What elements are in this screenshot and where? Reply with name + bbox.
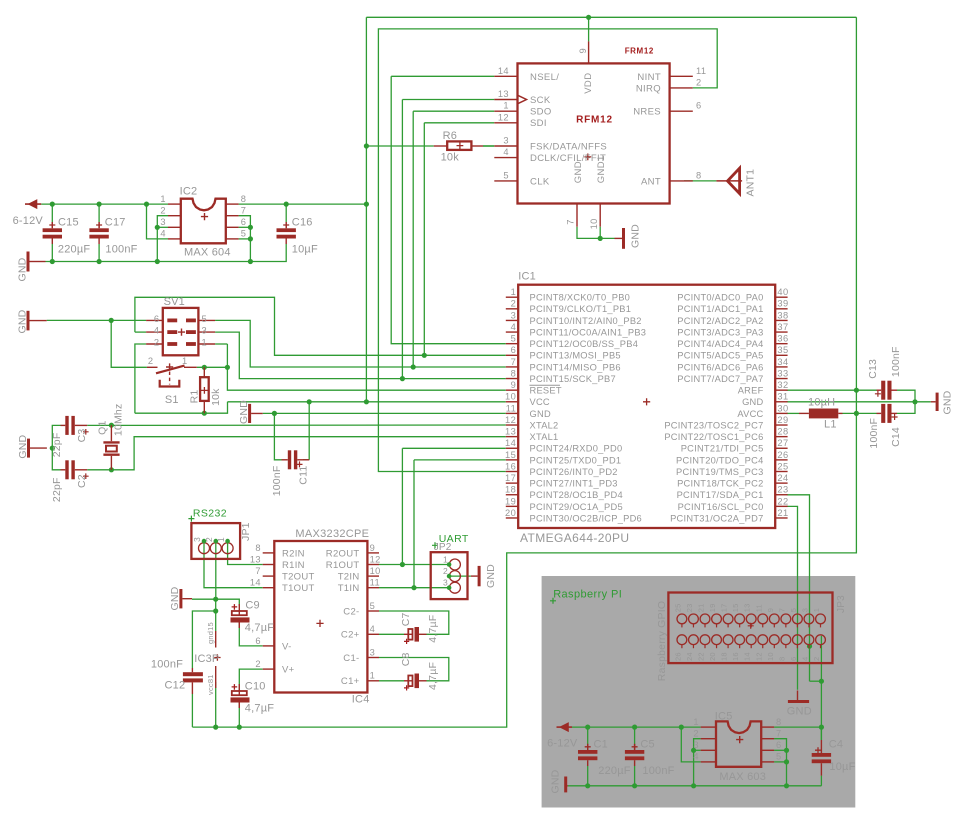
svg-text:2: 2 [443,566,448,576]
junction 5V dots [819,679,824,684]
wire RFM12 GND pins to GND [577,227,600,239]
junction AGND dot [912,399,917,404]
svg-text:VCC: VCC [530,397,550,407]
svg-text:4,7µF: 4,7µF [245,622,274,634]
junction RESET dots [202,365,207,370]
svg-text:NIRQ: NIRQ [636,83,661,94]
wire SCL net [787,506,798,689]
svg-text:17: 17 [720,604,729,613]
svg-text:6-12V: 6-12V [547,738,578,750]
svg-text:ATMEGA644-20PU: ATMEGA644-20PU [520,531,629,545]
svg-text:16: 16 [731,652,740,661]
wire IC3P bottom lead [215,682,217,727]
svg-text:13: 13 [250,554,261,564]
ground symbol GND (AGND right) [936,393,939,411]
svg-text:1: 1 [370,671,376,681]
svg-text:15: 15 [731,604,740,613]
svg-text:4,7µF: 4,7µF [427,615,439,643]
svg-text:MAX 604: MAX 604 [184,247,231,259]
svg-text:29: 29 [777,415,788,425]
wire RESET net S1-R1-SV1-IC1 [197,366,228,368]
SV1 pin stubs [146,319,163,321]
svg-text:FSK/DATA/NFFS: FSK/DATA/NFFS [530,142,607,153]
svg-text:6: 6 [255,636,261,646]
wire AREF net [787,389,877,391]
svg-text:1: 1 [503,101,509,111]
junction GND JP1 dots [213,597,218,602]
svg-text:8: 8 [241,194,247,204]
JP3 pin ticks [681,624,683,627]
svg-text:30: 30 [777,403,788,413]
svg-text:4: 4 [800,657,809,661]
svg-text:SCK: SCK [530,95,551,106]
svg-text:23: 23 [777,485,788,495]
svg-text:6-12V: 6-12V [13,215,44,227]
svg-text:PCINT18/TCK_PC2: PCINT18/TCK_PC2 [677,479,763,489]
svg-text:100nF: 100nF [868,418,880,449]
svg-text:2: 2 [255,659,261,669]
svg-text:6: 6 [789,657,798,661]
wire GND rail raspberry [568,785,821,787]
svg-text:12: 12 [754,652,763,661]
svg-text:10k: 10k [210,388,222,406]
RFM12 origin cross [584,154,591,161]
svg-text:PCINT20/TDO_PC4: PCINT20/TDO_PC4 [676,455,763,465]
svg-text:100nF: 100nF [642,765,674,777]
svg-text:PCINT26/INT0_PD2: PCINT26/INT0_PD2 [530,467,618,477]
capacitor C1 [578,750,597,754]
junction GND raspberry dots [585,783,590,788]
wire MOSI net SV1.4 to IC1 PB5 and RFM12 SDI [135,331,146,333]
svg-text:9: 9 [766,608,775,612]
svg-text:12: 12 [370,554,381,564]
svg-text:V+: V+ [282,665,295,676]
svg-text:3: 3 [202,326,208,336]
wire C7 net [379,633,404,635]
wire GND to SV1 pin6 and S1 [47,319,146,321]
JP1 circles [199,543,210,554]
svg-text:27: 27 [777,438,788,448]
junction SCK dot [400,376,405,381]
svg-text:5: 5 [789,608,798,612]
capacitor C16 [277,228,296,232]
svg-text:26: 26 [673,652,682,661]
svg-text:14: 14 [743,652,752,661]
Raspberry PI origin cross [550,598,556,604]
svg-text:RESET: RESET [530,386,562,396]
capacitor C4 [812,753,831,757]
svg-text:GND: GND [17,257,29,281]
svg-text:8: 8 [255,543,261,553]
ground symbol GND (crystal area) [27,439,30,458]
svg-text:Raspberry GPIO: Raspberry GPIO [656,601,668,681]
svg-text:22pF: 22pF [51,433,63,458]
capacitor C8 [404,680,413,682]
svg-text:R2OUT: R2OUT [326,548,360,559]
svg-text:13: 13 [498,89,509,99]
svg-text:PCINT16/SCL_PC0: PCINT16/SCL_PC0 [678,502,764,512]
svg-text:10k: 10k [441,152,460,164]
svg-text:C7: C7 [400,612,412,626]
svg-text:1: 1 [202,338,208,348]
svg-text:12: 12 [498,112,509,122]
svg-text:40: 40 [777,287,788,297]
wire MISO net SV1.5 to IC1 PB6 and RFM12 SDO [215,320,506,367]
svg-text:PCINT8/XCK0/T0_PB0: PCINT8/XCK0/T0_PB0 [530,293,631,303]
wire XTAL1 net [52,448,60,470]
wire ANT net [684,180,716,182]
svg-text:NINT: NINT [637,72,661,83]
svg-text:FRM12: FRM12 [625,46,654,55]
svg-text:2: 2 [148,356,154,366]
svg-text:17: 17 [505,473,516,483]
IC1 RESET overline [530,384,561,386]
wire C12 bottom lead [191,694,193,727]
connector JP1 outline [191,523,240,559]
svg-text:11: 11 [370,578,380,588]
IC2 pin stubs [168,203,181,205]
capacitor C17 [89,228,108,232]
svg-text:39: 39 [777,299,788,309]
wire C10 leads [239,669,262,691]
svg-text:10µH: 10µH [808,396,835,408]
svg-text:100nF: 100nF [890,346,902,377]
svg-text:31: 31 [777,392,788,402]
svg-text:C2-: C2- [343,606,359,617]
svg-text:C17: C17 [105,217,126,229]
svg-text:R1: R1 [189,390,201,404]
junction IC5 right loop dots [784,748,789,753]
svg-text:33: 33 [777,368,788,378]
svg-text:19: 19 [505,496,516,506]
svg-text:PCINT11/OC0A/AIN1_PB3: PCINT11/OC0A/AIN1_PB3 [530,327,647,337]
capacitor C7 [404,633,413,635]
svg-text:13: 13 [743,604,752,613]
svg-text:37: 37 [777,322,788,332]
svg-text:25: 25 [777,461,788,471]
svg-text:1: 1 [216,537,226,542]
svg-text:220µF: 220µF [598,765,630,777]
svg-text:220µF: 220µF [58,244,90,256]
svg-text:9: 9 [370,543,376,553]
ground symbol GND (IC2 area) [27,252,30,272]
svg-text:C1+: C1+ [341,676,360,687]
svg-text:22: 22 [697,652,706,661]
svg-text:SDI: SDI [530,118,547,129]
svg-text:RFM12: RFM12 [576,115,613,126]
svg-text:15: 15 [505,450,516,460]
svg-text:12: 12 [505,415,516,425]
capacitor C14 [877,412,882,414]
wire C4 leads [820,727,822,740]
svg-text:PCINT25/TXD0_PD1: PCINT25/TXD0_PD1 [530,455,622,465]
svg-text:7: 7 [776,728,782,738]
svg-text:7: 7 [241,205,247,215]
svg-text:PCINT12/OC0B/SS_PB4: PCINT12/OC0B/SS_PB4 [530,339,639,349]
SV1 pads [167,319,177,323]
svg-text:6: 6 [154,314,160,324]
JP2 circles [449,559,460,570]
svg-text:IC1: IC1 [518,270,536,282]
svg-text:C5: C5 [640,739,654,751]
svg-text:PCINT22/TOSC1_PC6: PCINT22/TOSC1_PC6 [664,432,763,442]
ground symbol GND (IC1 pin11) [248,404,251,423]
IC2 origin cross [201,213,208,220]
svg-text:ANT1: ANT1 [745,169,757,197]
wire AVCC net with L1 [787,412,799,414]
svg-text:10: 10 [505,392,516,402]
svg-text:PCINT17/SDA_PC1: PCINT17/SDA_PC1 [677,490,764,500]
svg-text:14: 14 [498,66,509,76]
svg-text:1: 1 [511,287,517,297]
svg-text:PCINT19/TMS_PC3: PCINT19/TMS_PC3 [676,467,763,477]
IC5 origin cross [736,736,743,743]
svg-text:35: 35 [777,345,788,355]
svg-text:PCINT0/ADC0_PA0: PCINT0/ADC0_PA0 [677,293,763,303]
svg-text:C14: C14 [890,427,902,447]
ground symbol GND (JP2) [478,566,481,586]
svg-text:C12: C12 [165,680,186,692]
wire JP1 pin3 to T1OUT [204,541,263,588]
RFM12 pin stub top [588,41,590,63]
junction VDD net dots [586,15,591,20]
svg-text:vcc81: vcc81 [206,674,215,695]
svg-text:C2+: C2+ [341,630,360,641]
wire GND net JP1 area [192,599,239,606]
svg-text:5: 5 [202,314,208,324]
IC regulator IC5 outline [716,721,761,766]
svg-text:11: 11 [754,604,763,612]
junction 6-12V rail dots [50,202,55,207]
svg-text:10: 10 [766,652,775,661]
resistor R1 [200,377,209,401]
junction MISO dot [411,364,416,369]
svg-text:1: 1 [693,717,699,727]
svg-text:10: 10 [589,218,599,229]
wire C9 leads [239,623,262,646]
svg-text:4,7µF: 4,7µF [427,662,439,690]
antenna ANT1 [716,180,742,182]
svg-text:3: 3 [693,740,699,750]
svg-text:CLK: CLK [530,176,550,187]
svg-text:100nF: 100nF [271,466,283,497]
svg-text:IC2: IC2 [180,185,198,197]
svg-text:PCINT30/OC2B/ICP_PD6: PCINT30/OC2B/ICP_PD6 [530,513,642,523]
JP3 origin cross [748,623,754,629]
svg-text:8: 8 [777,657,786,661]
wire RXD net [402,447,505,449]
capacitor C2 [61,469,66,471]
svg-text:MAX 603: MAX 603 [719,771,766,783]
junction IC2 left loop dot [155,225,160,230]
capacitor C3 [61,424,66,426]
IC1 pin stubs [506,296,518,298]
svg-text:4: 4 [511,322,517,332]
wire C1 leads [587,727,589,744]
svg-text:1: 1 [443,555,448,565]
svg-text:7: 7 [777,608,786,612]
svg-text:C3: C3 [76,429,88,443]
svg-text:PCINT23/TOSC2_PC7: PCINT23/TOSC2_PC7 [664,420,763,430]
capacitor C9 [238,604,240,615]
svg-text:JP1: JP1 [240,522,252,541]
junction RFM12 GND dot [598,236,603,241]
svg-text:VDD: VDD [583,73,594,94]
svg-text:10µF: 10µF [829,761,855,773]
IC microcontroller IC1 outline [518,285,775,528]
svg-text:1: 1 [812,608,821,612]
svg-text:2: 2 [160,205,166,215]
svg-text:1: 1 [182,356,188,366]
svg-text:S1: S1 [165,394,179,406]
svg-text:GND: GND [17,309,29,333]
svg-text:34: 34 [777,357,788,367]
wire IC2 pins 2-3 ground loop [157,216,168,262]
svg-text:C9: C9 [245,599,259,611]
svg-text:6: 6 [776,740,782,750]
svg-text:SV1: SV1 [164,296,185,308]
svg-text:5: 5 [241,229,247,239]
svg-text:C10: C10 [245,681,266,693]
SV1 origin cross [178,329,185,336]
svg-text:18: 18 [720,652,729,661]
svg-text:IC4: IC4 [352,694,370,706]
svg-text:Raspberry PI: Raspberry PI [553,589,622,601]
svg-text:PCINT14/MISO_PB6: PCINT14/MISO_PB6 [530,362,621,372]
svg-text:NRES: NRES [633,107,661,118]
wire JP1 pin2 to GND [215,541,217,599]
wire IC3P top lead [215,599,217,631]
wire IC2 pins 7-6-5 ground loop [239,216,251,262]
wire C15 leads [51,204,53,222]
svg-text:PCINT13/MOSI_PB5: PCINT13/MOSI_PB5 [530,351,621,361]
svg-text:V-: V- [282,641,292,652]
svg-text:XTAL2: XTAL2 [530,420,559,430]
svg-text:MAX3232CPE: MAX3232CPE [295,528,369,540]
svg-text:AVCC: AVCC [737,409,763,419]
svg-text:GND: GND [169,586,181,610]
svg-text:21: 21 [697,604,706,613]
svg-text:PCINT7/ADC7_PA7: PCINT7/ADC7_PA7 [677,374,763,384]
svg-text:GND: GND [530,409,551,419]
capacitor C15 [43,228,62,232]
svg-text:Q1: Q1 [97,420,109,434]
svg-text:GND: GND [238,400,250,424]
svg-text:3: 3 [370,647,376,657]
Raspberry PI section background box [542,576,856,808]
wire 5V net JP3 to IC5 out [810,680,822,682]
svg-text:4: 4 [160,229,166,239]
capacitor C11 [282,459,288,461]
wire GND to IC1 pin11 and C11 [263,412,506,414]
svg-text:GND: GND [742,397,763,407]
UART origin cross [432,542,438,548]
svg-text:C13: C13 [867,359,879,379]
inductor L1 [799,412,809,414]
JP1 pads [202,539,207,544]
svg-text:R1IN: R1IN [282,560,305,571]
svg-text:38: 38 [777,310,788,320]
svg-text:20: 20 [708,652,717,661]
svg-text:100nF: 100nF [105,244,137,256]
svg-text:22: 22 [777,496,788,506]
svg-text:8: 8 [776,717,782,727]
ground symbol GND (SV1 area) [27,311,30,331]
svg-text:C16: C16 [292,217,313,229]
wire GND rail IC2 area [46,252,287,262]
svg-text:PCINT3/ADC3_PA3: PCINT3/ADC3_PA3 [677,327,763,337]
svg-text:C15: C15 [58,217,79,229]
connector SV1 outline [163,308,199,355]
svg-text:3: 3 [511,310,517,320]
svg-text:7: 7 [511,357,517,367]
svg-text:36: 36 [777,334,788,344]
capacitor C5 [625,750,644,754]
wire JP1 pin1 to R1IN [228,541,263,564]
svg-text:PCINT27/INT1_PD3: PCINT27/INT1_PD3 [530,479,618,489]
supply arrow 6-12V (IC5) [557,726,573,728]
svg-text:1: 1 [160,194,166,204]
svg-text:T1OUT: T1OUT [282,583,315,594]
svg-text:GND: GND [550,769,562,793]
junction XTAL1 dot [109,467,114,472]
RS232 origin cross [188,516,194,522]
svg-text:IC3P: IC3P [194,653,219,665]
svg-text:6: 6 [511,345,517,355]
IC RFM12 outline [518,63,670,203]
svg-text:7: 7 [566,219,576,225]
svg-text:C8: C8 [400,652,412,666]
wire TXD net [414,459,506,461]
svg-text:13: 13 [505,427,516,437]
wire AGND net pin31 [787,401,931,403]
JP3 bottom row circles [677,635,687,645]
svg-text:AREF: AREF [738,386,764,396]
svg-text:24: 24 [685,652,694,661]
junction IC2 right loop dots [248,225,253,230]
svg-text:SDO: SDO [530,107,552,118]
wire SDA net [787,495,810,681]
svg-text:DCLK/CFIL/FFIT: DCLK/CFIL/FFIT [530,153,606,164]
svg-text:T1IN: T1IN [338,583,360,594]
svg-text:PCINT28/OC1B_PD4: PCINT28/OC1B_PD4 [530,490,623,500]
wire C8 net [379,680,404,682]
IC1 origin cross [643,398,650,405]
IC driver IC4 outline [274,541,367,693]
RFM12 pin stubs right [670,75,693,77]
svg-text:GND: GND [573,161,584,183]
svg-text:23: 23 [685,604,694,613]
svg-text:9: 9 [578,48,588,54]
IC4 origin cross [316,620,323,627]
svg-text:24: 24 [777,473,788,483]
ground symbol GND (raspberry) [788,700,809,703]
svg-text:2: 2 [812,657,821,661]
junction XTAL2 dot [109,423,114,428]
RFM12 pin stubs bottom [576,204,578,227]
svg-text:11: 11 [506,403,516,413]
svg-text:3: 3 [800,608,809,612]
svg-text:GND: GND [17,434,29,458]
svg-text:21: 21 [777,508,788,518]
svg-text:16: 16 [505,461,516,471]
junction MOSI dot [422,353,427,358]
svg-text:T2OUT: T2OUT [282,572,315,583]
svg-text:T2IN: T2IN [338,572,360,583]
svg-text:PCINT9/CLKO/T1_PB1: PCINT9/CLKO/T1_PB1 [530,304,632,314]
wire 6-12V rail IC5 [572,726,701,728]
svg-text:2: 2 [693,728,699,738]
